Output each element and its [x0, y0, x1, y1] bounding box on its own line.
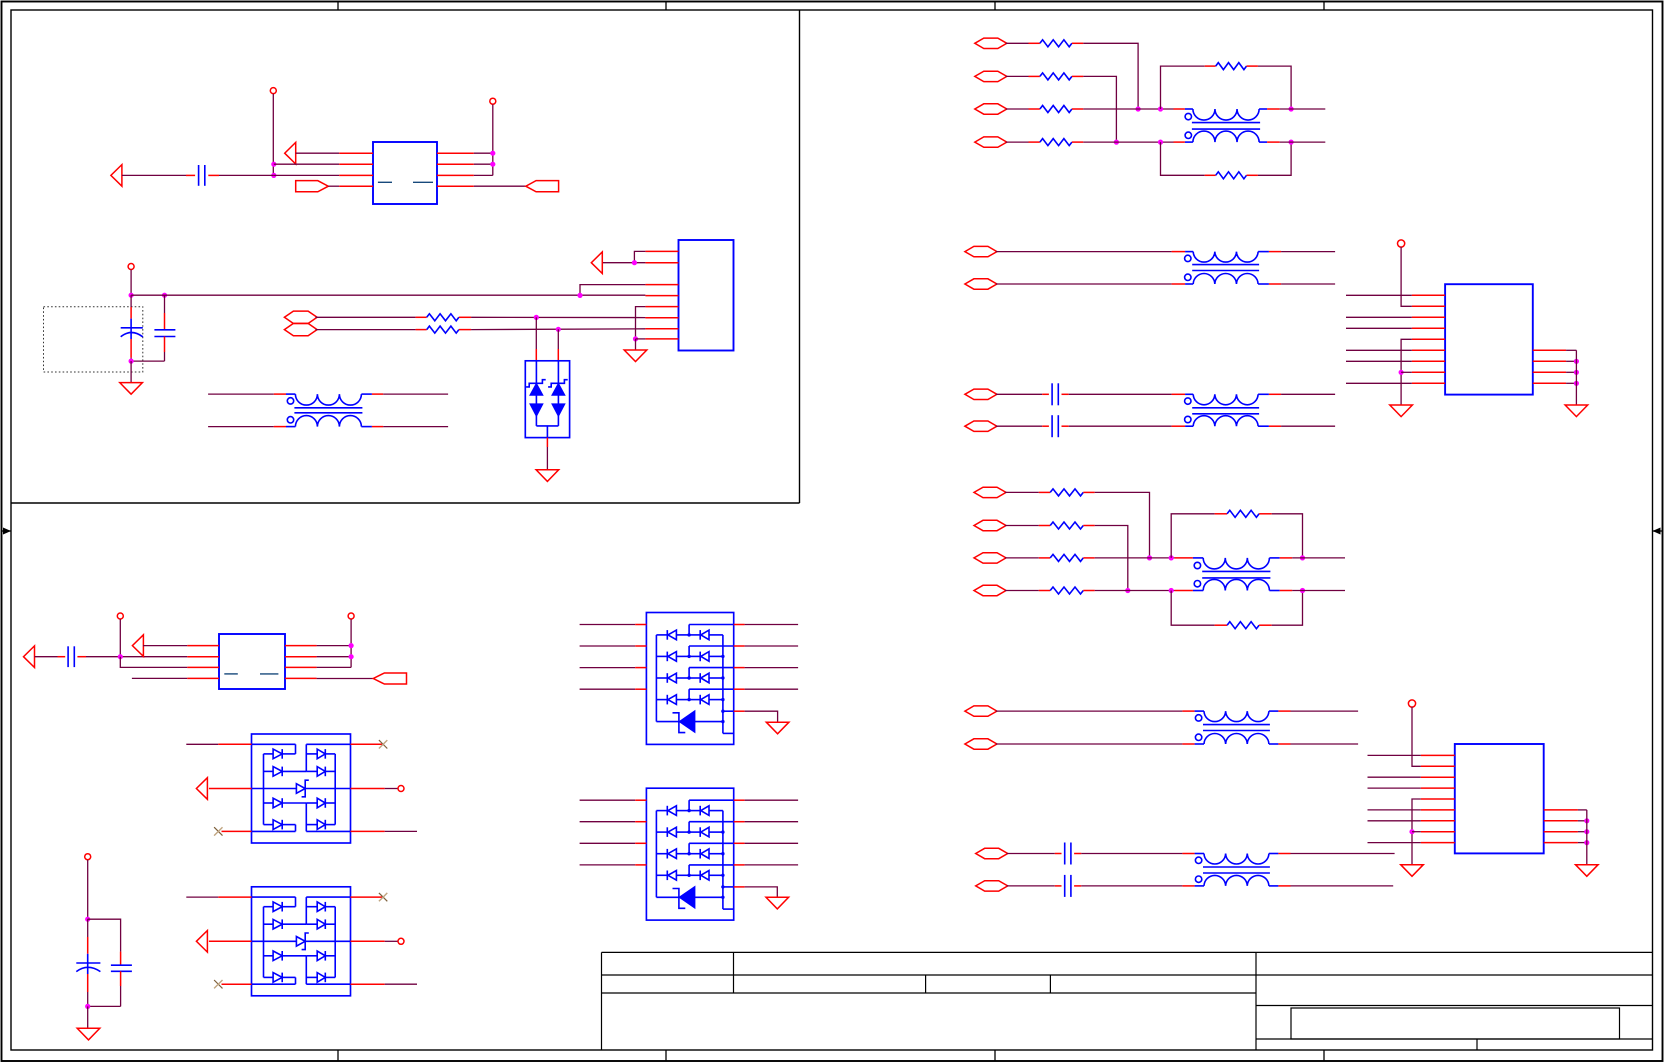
- wire row4 to flag: [474, 185, 526, 187]
- power port P2 (circuit 1): [490, 98, 496, 175]
- capacitor C3: [131, 295, 175, 361]
- pin U2-8: [645, 338, 678, 340]
- junction (main net / C2): [129, 293, 134, 298]
- IC U3: [219, 634, 285, 689]
- capacitor C6: [88, 952, 132, 1007]
- wire pin8 stub: [636, 338, 646, 340]
- wire TPC- row2: [996, 743, 1195, 745]
- port N2-4 hex: [974, 585, 1006, 595]
- port OUT1 arrow: [591, 252, 602, 274]
- port TPB-1 hex: [965, 389, 997, 399]
- port TPD-2 hex: [976, 881, 1008, 891]
- capacitor TPD-C1: [1065, 843, 1071, 865]
- wire N1- row3 to T: [1083, 108, 1185, 110]
- wire TPB- out top: [1269, 393, 1335, 395]
- port TAG1 flag: [296, 181, 329, 192]
- power port P5 (circuit 3): [348, 613, 354, 667]
- wire U1 right rows: [474, 153, 493, 175]
- wire TPB- row1 a: [996, 393, 1049, 395]
- pin U3-3 left: [187, 666, 219, 668]
- wire U5 pin8 stub: [1412, 831, 1421, 833]
- wire U5 R1: [1578, 809, 1587, 811]
- transformer TPD-T: [1195, 854, 1279, 886]
- pin U1-1 left: [339, 152, 373, 154]
- wire TPA- row1: [996, 251, 1185, 253]
- pin U4-R4: [1533, 382, 1566, 384]
- transformer TPB-T: [1185, 394, 1269, 426]
- port TPB-2 hex: [965, 421, 997, 431]
- wire N2- T out top: [1280, 557, 1345, 559]
- pin U4-2: [1412, 305, 1445, 307]
- pin U2-4: [645, 295, 678, 297]
- wire N1- row2: [1006, 75, 1029, 77]
- wire TPD- out bottom: [1278, 885, 1393, 887]
- junction (P5 / row2): [349, 654, 354, 659]
- power port P4 (circuit 3): [117, 613, 123, 657]
- wire U5 pin4: [1368, 787, 1421, 789]
- wire N2- row4 to T: [1095, 590, 1193, 592]
- wire TPB- row2 a: [996, 425, 1049, 427]
- wire U4 pin1: [1346, 294, 1412, 296]
- wire C4 to junction: [77, 656, 187, 658]
- resistor N1- R-row2: [1029, 73, 1084, 80]
- wire to ground: [130, 361, 132, 383]
- wire U4 R1: [1566, 349, 1576, 351]
- pin U5-4: [1421, 787, 1455, 789]
- wire N1- T out top: [1267, 108, 1325, 110]
- wire D5 right 3: [734, 842, 798, 844]
- pin U4-3: [1412, 316, 1445, 318]
- pin U4-5: [1412, 338, 1445, 340]
- junction N1- j3: [1158, 106, 1163, 111]
- resistor N2- R-loop-top: [1215, 510, 1272, 517]
- ground (D5): [766, 897, 789, 909]
- wire U4 pin4: [1346, 327, 1412, 329]
- wire row1 c3: [143, 645, 187, 647]
- wire T1 bottom-right: [372, 426, 448, 428]
- wire N2- row2 jog: [1095, 526, 1128, 591]
- pin U3-8 right: [285, 677, 317, 679]
- junction N1- j1: [1136, 106, 1141, 111]
- protector array D3: [252, 887, 351, 996]
- pin U4-8: [1412, 371, 1445, 373]
- wire TPD- row2 b: [1074, 885, 1195, 887]
- wire N1- row4: [1006, 141, 1029, 143]
- port IN4 arrow: [132, 635, 143, 657]
- port IN3 arrow: [24, 646, 35, 668]
- capacitor TPB-C1: [1052, 383, 1058, 405]
- wire TPC- out bottom: [1278, 743, 1358, 745]
- wire U5 pin7: [1368, 820, 1421, 822]
- wire rowB to U2 pin7: [471, 328, 645, 331]
- wire D5 left 2: [580, 821, 647, 823]
- wire TPA- out top: [1269, 251, 1335, 253]
- pin U3-7 right: [285, 666, 317, 668]
- wire U5 pin1: [1368, 754, 1421, 756]
- wire TPD- row2 a: [1007, 885, 1062, 887]
- port COM1 arrow: [196, 778, 207, 800]
- pin D2 top-right + X: [351, 740, 388, 748]
- junction (U5 R4): [1584, 840, 1589, 845]
- wire TPD- row1 a: [1007, 853, 1062, 855]
- junction (rowA / TVS): [534, 315, 539, 320]
- junction N2- j6: [1300, 588, 1305, 593]
- power port (U5): [1408, 700, 1420, 766]
- pin U4-9: [1412, 382, 1445, 384]
- wire D5 right 2: [734, 821, 798, 823]
- junction (U5 R2): [1584, 818, 1589, 823]
- resistor R2: [416, 326, 472, 333]
- wire D4 right 4: [734, 688, 798, 690]
- pin U5-2: [1421, 765, 1455, 767]
- port N1-2 hex: [975, 71, 1007, 81]
- pin U3-5 right: [285, 645, 317, 647]
- wire U4 R4: [1566, 382, 1576, 384]
- wire D4 right 3: [734, 667, 798, 669]
- wire N2- row4: [1005, 590, 1039, 592]
- port N1-4 hex: [975, 137, 1007, 147]
- wire N1- loop top right: [1258, 66, 1291, 109]
- wire N2- loop bottom right: [1272, 591, 1303, 626]
- wire rowB to R2: [315, 329, 415, 331]
- wire D5 left 4: [580, 864, 647, 866]
- junction N1- j6: [1289, 140, 1294, 145]
- capacitor C5 (polarized): [76, 919, 100, 1006]
- resistor N1- R-loop-top: [1205, 63, 1258, 70]
- junction N2- j1: [1147, 555, 1152, 560]
- wire U4 pin3: [1346, 316, 1412, 318]
- no-connect X (D2 bottom-left): [214, 827, 251, 835]
- ground (D4): [766, 722, 789, 734]
- wire TPC- out top: [1278, 710, 1358, 712]
- wire N1- row4 to T: [1083, 141, 1185, 143]
- pin U2-5: [645, 306, 678, 308]
- power port P3 (circuit 2): [128, 264, 134, 296]
- wire cap left lead: [122, 174, 195, 176]
- pin D3 top-right + X: [351, 893, 388, 901]
- wire TPB- row1 b: [1062, 393, 1186, 395]
- resistor N2- R-row3: [1039, 554, 1095, 561]
- pin U2-1: [645, 250, 678, 252]
- junction (main net / pin3): [577, 293, 582, 298]
- wire U5 R2: [1578, 820, 1587, 822]
- port N1-3 hex: [975, 104, 1007, 114]
- port RX- hex: [284, 323, 317, 335]
- wire D5 right 4: [734, 864, 798, 866]
- wire N1- row1: [1006, 42, 1029, 44]
- wire TVS to ground: [546, 438, 548, 470]
- wire to ground c3: [87, 1006, 89, 1028]
- pin U1-5 right: [437, 152, 474, 154]
- pin U4-1: [1412, 294, 1445, 296]
- wire TPB- row2 b: [1062, 425, 1186, 427]
- capacitor C1: [199, 165, 205, 186]
- wire pin2 row: [274, 163, 339, 165]
- pin D4-5 to ground: [734, 711, 778, 722]
- pin U4-R1: [1533, 349, 1566, 351]
- wire U4 pin5 drop: [1401, 339, 1412, 405]
- wire N1- loop bottom: [1161, 142, 1205, 175]
- wire D3 bottom-right: [351, 983, 418, 985]
- wire N1- row3: [1006, 108, 1029, 110]
- junction (rowB / TVS): [556, 327, 561, 332]
- wire main horizontal net: [131, 294, 645, 296]
- junction (C5 bottom): [85, 1004, 90, 1009]
- wire U4 R3: [1566, 371, 1576, 373]
- transformer TPA-T: [1185, 252, 1269, 284]
- pin U5-6: [1421, 809, 1455, 811]
- junction N2- j3: [1169, 555, 1174, 560]
- wire T1 bottom-left: [208, 426, 286, 428]
- wire D4 left 3: [580, 667, 647, 669]
- pin U1-4 left: [339, 185, 373, 187]
- wire row3 jog c3: [120, 657, 187, 668]
- capacitor C2 (polarized): [121, 295, 143, 361]
- resistor N1- R-row1: [1029, 40, 1084, 47]
- wire N1- row2 jog: [1083, 76, 1116, 142]
- port N2-1 hex: [974, 487, 1006, 497]
- port N2-3 hex: [974, 553, 1006, 563]
- wire T1 top-right: [372, 393, 448, 395]
- junction (P1 net / pin2 row): [271, 162, 276, 167]
- diode array D5: [646, 788, 733, 920]
- pin U1-6 right: [437, 163, 474, 165]
- wire N2- loop top: [1171, 514, 1214, 558]
- wire rowA to R1: [315, 316, 415, 318]
- junction N1- j5: [1289, 106, 1294, 111]
- transformer T1: [286, 394, 372, 427]
- junction (P5 / row1): [349, 643, 354, 648]
- junction N2- j4: [1169, 588, 1174, 593]
- junction (pin5 net / pin8): [633, 336, 638, 341]
- connector outline (dotted): [44, 307, 143, 372]
- junction (C5 top): [85, 917, 90, 922]
- port COM2 arrow: [196, 931, 207, 953]
- wire U4 right rail: [1575, 350, 1577, 405]
- wire U2 pin3 jog: [580, 285, 645, 296]
- wire T1 top-left: [208, 393, 286, 395]
- wire D5 left 1: [580, 799, 647, 801]
- wire C5/C6 top link: [88, 919, 121, 951]
- wire D4 left 2: [580, 645, 647, 647]
- wire cap to junction: [208, 174, 339, 176]
- junction (U5 R3): [1584, 829, 1589, 834]
- wire N2- T out bottom: [1280, 590, 1345, 592]
- resistor N2- R-row4: [1039, 587, 1095, 594]
- pin U2-6: [645, 317, 678, 319]
- wire U4 pin7: [1346, 360, 1412, 362]
- wire U2 pin5 jog: [636, 307, 646, 339]
- wire U5 R3: [1578, 831, 1587, 833]
- junction (pin1/pin2): [632, 260, 637, 265]
- pin U5-7: [1421, 820, 1455, 822]
- pin U5-R3: [1544, 831, 1578, 833]
- IC U1: [373, 142, 437, 204]
- wire D2 bottom-right: [351, 830, 418, 832]
- pin U4-4: [1412, 327, 1445, 329]
- wire TPA- out bottom: [1269, 283, 1335, 285]
- wire D3 top-left: [186, 896, 251, 898]
- junction N2- j2: [1125, 588, 1130, 593]
- IC U5: [1455, 744, 1544, 853]
- wire U5 R4: [1578, 842, 1587, 844]
- wire N2- row3: [1005, 557, 1039, 559]
- pin U3-1 left: [187, 645, 219, 647]
- junction N1- j4: [1158, 140, 1163, 145]
- ground (U4 left): [1390, 405, 1413, 417]
- wire N2- row2: [1005, 525, 1039, 527]
- capacitor TPB-C2: [1052, 415, 1058, 437]
- power port P1 (circuit 1): [270, 88, 276, 176]
- power port P6: [85, 854, 91, 920]
- pin U4-R2: [1533, 360, 1566, 362]
- wire D4 right 1: [734, 624, 798, 626]
- wire U4 R2: [1566, 360, 1576, 362]
- wire U4 pin6: [1346, 349, 1412, 351]
- ground (TVS): [536, 470, 559, 482]
- wire TPC- row1: [996, 710, 1195, 712]
- wire D2 top-left: [186, 743, 251, 745]
- pin U5-3: [1421, 776, 1455, 778]
- wire N2- row3 to T: [1095, 557, 1193, 559]
- pin U3-4 left: [187, 677, 219, 679]
- resistor N2- R-loop-bottom: [1215, 622, 1272, 629]
- wire N2- row1: [1005, 491, 1039, 493]
- pin U1-3 left: [339, 174, 373, 176]
- ground (U5 left): [1401, 865, 1424, 877]
- transformer N1- T: [1185, 109, 1267, 142]
- wire pin1 row: [296, 152, 340, 154]
- junction (C2/C3 bottom): [129, 359, 134, 364]
- wire TVS drop B: [557, 329, 559, 361]
- ground (caps): [77, 1028, 100, 1040]
- wire N1- loop top: [1161, 66, 1205, 109]
- pin U1-8 right: [437, 185, 474, 187]
- protector array D2: [252, 734, 351, 843]
- wire U4 pin8 stub: [1401, 371, 1412, 373]
- wire N1- T out bottom: [1267, 141, 1325, 143]
- resistor R1: [416, 314, 472, 321]
- wire U5 pin3: [1368, 776, 1421, 778]
- wire TPB- out bottom: [1269, 425, 1335, 427]
- wire N2- loop top right: [1272, 514, 1303, 558]
- diode array D4: [646, 613, 733, 745]
- wire N1- loop bottom right: [1258, 142, 1291, 175]
- wire D5 left 3: [580, 842, 647, 844]
- wire U3 right rows: [317, 646, 352, 668]
- pin U4-6: [1412, 349, 1445, 351]
- junction (U4 R3): [1574, 370, 1579, 375]
- junction (main net / C3): [162, 293, 167, 298]
- wire to ground U2: [635, 339, 637, 350]
- wire TVS drop A: [535, 317, 537, 360]
- wire pin4 row: [328, 185, 339, 187]
- transformer TPC-T: [1195, 711, 1279, 744]
- pin U5-R2: [1544, 820, 1578, 822]
- wire D4 left 4: [580, 688, 647, 690]
- junction (U4 R2): [1574, 359, 1579, 364]
- ground (circuit 2): [120, 383, 143, 395]
- wire U5 right rail: [1586, 810, 1588, 865]
- port TPC-2 hex: [965, 739, 997, 749]
- pin U2-2: [645, 262, 678, 264]
- pin D3 center-right: [351, 938, 405, 944]
- junction (P1 net / cap row): [271, 173, 276, 178]
- ground (U4 right): [1565, 405, 1588, 417]
- port TPA-2 hex: [965, 279, 997, 289]
- port IN2 arrow: [111, 165, 122, 187]
- junction (U4 pin8): [1399, 370, 1404, 375]
- TVS diode pack D1: [525, 361, 569, 438]
- port TAG3 flag: [373, 673, 406, 684]
- wire U5 pin6: [1368, 809, 1421, 811]
- pin U3-6 right: [285, 656, 317, 658]
- port N1-1 hex: [975, 38, 1007, 48]
- wire U5 pin5 drop: [1412, 799, 1421, 865]
- pin U5-9: [1421, 842, 1455, 844]
- port N2-2 hex: [974, 520, 1006, 530]
- wire TPD- out top: [1278, 853, 1394, 855]
- junction N2- j5: [1300, 555, 1305, 560]
- pin D5-5 to ground: [734, 887, 778, 897]
- wire U2 pin1 jog: [634, 251, 645, 262]
- pin U5-1: [1421, 754, 1455, 756]
- port TPC-1 hex: [965, 706, 997, 716]
- wire row4 c3: [132, 677, 187, 679]
- wire N2- row1 jog: [1095, 492, 1150, 558]
- capacitor C4: [68, 646, 74, 667]
- wire D4 left 1: [580, 624, 647, 626]
- pin U1-2 left: [339, 163, 373, 165]
- pin U3-2 left: [187, 656, 219, 658]
- wire rowA to U2 pin6: [471, 316, 645, 318]
- ground (U2): [624, 350, 647, 362]
- pin D2 center-right: [351, 786, 405, 792]
- port TPA-1 hex: [965, 246, 997, 256]
- wire OUT1 to pin2: [603, 262, 645, 264]
- no-connect X (D3 bottom-left): [214, 980, 251, 988]
- ground (U5 right): [1576, 865, 1599, 877]
- port RX+ hex: [284, 311, 317, 323]
- wire U5 pin9: [1368, 842, 1421, 844]
- port TAG2 flag: [526, 181, 559, 192]
- wire D4 right 2: [734, 645, 798, 647]
- wire cap C4 left lead: [35, 656, 66, 658]
- wire D5 right 1: [734, 799, 798, 801]
- pin U4-7: [1412, 360, 1445, 362]
- junction (U4 R4): [1574, 381, 1579, 386]
- resistor N2- R-row2: [1039, 522, 1095, 529]
- wire TPD- row1 b: [1074, 853, 1195, 855]
- resistor N1- R-loop-bottom: [1205, 172, 1258, 179]
- wire N2- loop bottom: [1171, 591, 1214, 626]
- pin U5-8: [1421, 831, 1455, 833]
- pin U5-R4: [1544, 842, 1578, 844]
- junction (P4 / row2): [118, 654, 123, 659]
- resistor N1- R-row3: [1029, 106, 1084, 113]
- pin U5-5: [1421, 798, 1455, 800]
- port TPD-1 hex: [976, 848, 1008, 858]
- junction N1- j2: [1114, 140, 1119, 145]
- capacitor TPD-C2: [1065, 875, 1071, 897]
- wire row4 to flag c3: [317, 678, 374, 680]
- port IN1 arrow: [285, 142, 296, 164]
- junction (U5 pin8): [1409, 829, 1414, 834]
- pin D2 center-left: [209, 788, 252, 790]
- pin U2-7: [645, 328, 678, 330]
- IC U2: [679, 240, 734, 351]
- wire TPA- row2: [996, 283, 1185, 285]
